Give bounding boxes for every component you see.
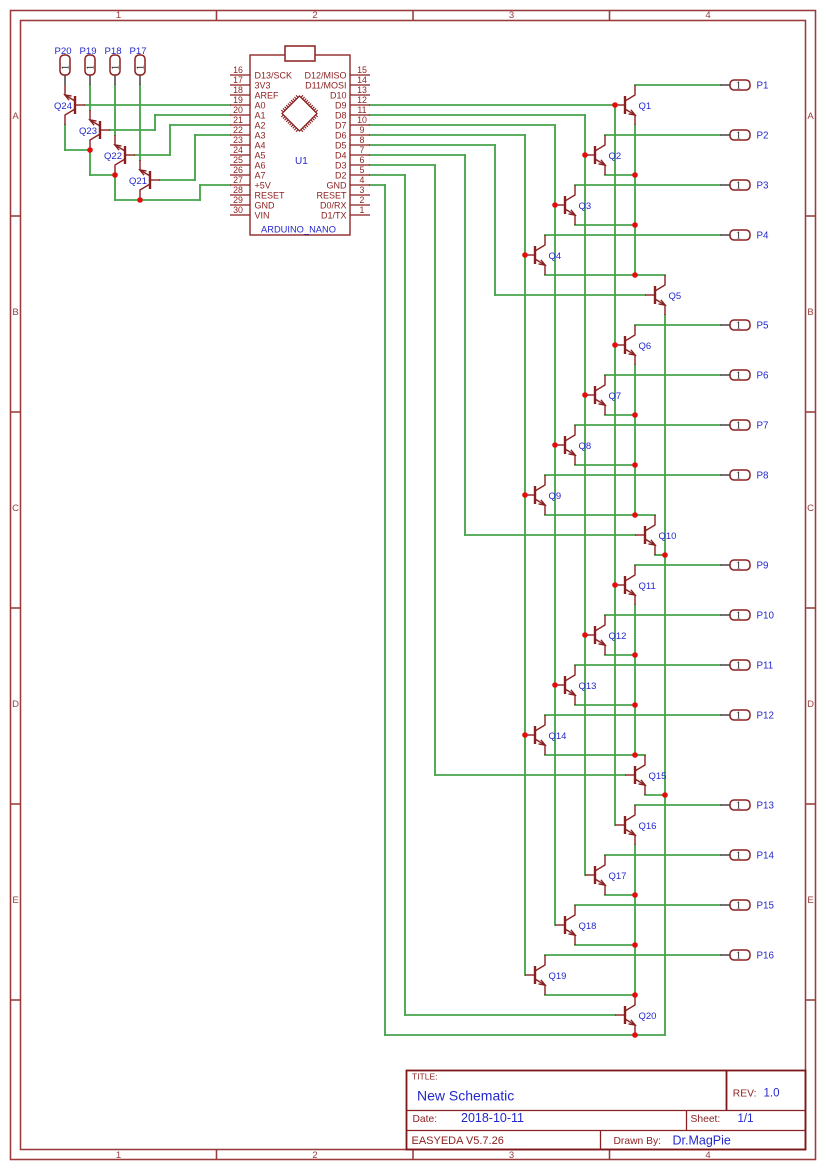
svg-text:Q16: Q16 — [639, 821, 657, 832]
wire net D5 to Q5 base — [370, 145, 645, 295]
svg-text:2: 2 — [312, 10, 317, 21]
svg-text:2018-10-11: 2018-10-11 — [461, 1111, 524, 1125]
wire to header P4 — [545, 234, 720, 236]
pin 3 RESET — [316, 185, 370, 200]
transistor Q24 — [54, 85, 85, 125]
svg-text:16: 16 — [233, 65, 243, 75]
transistor Q20 — [615, 995, 656, 1035]
pin 22 A3 — [230, 125, 266, 140]
svg-text:P6: P6 — [757, 371, 770, 382]
svg-text:1: 1 — [60, 65, 71, 70]
junction node (635,755) — [632, 752, 638, 758]
svg-text:P16: P16 — [757, 951, 775, 962]
wire to header P2 — [605, 134, 720, 136]
svg-text:Q21: Q21 — [129, 176, 147, 187]
op-amp U1 ARDUINO_NANO — [230, 46, 370, 235]
wire to header P7 — [575, 424, 720, 426]
svg-text:P18: P18 — [104, 46, 121, 57]
svg-text:1: 1 — [736, 711, 741, 722]
svg-text:4: 4 — [360, 175, 365, 185]
connector P4 — [720, 230, 769, 242]
svg-text:P2: P2 — [757, 131, 769, 142]
svg-text:3: 3 — [360, 185, 365, 195]
svg-text:A1: A1 — [255, 111, 266, 121]
svg-text:1: 1 — [736, 901, 741, 912]
wire emitter bus group 1 — [634, 125, 636, 275]
svg-text:24: 24 — [233, 145, 243, 155]
svg-text:D: D — [12, 699, 19, 710]
svg-text:4: 4 — [705, 10, 710, 21]
svg-text:P4: P4 — [757, 231, 770, 242]
connector P1 — [720, 80, 768, 92]
svg-text:C: C — [807, 503, 814, 514]
pin 1 D1/TX — [321, 205, 370, 220]
svg-text:11: 11 — [357, 105, 366, 115]
transistor Q16 — [615, 805, 656, 845]
connector P3 — [720, 180, 769, 192]
transistor Q14 — [525, 715, 566, 755]
svg-text:TITLE:: TITLE: — [412, 1072, 438, 1082]
junction node (635,895) — [632, 892, 638, 898]
svg-text:B: B — [807, 307, 813, 318]
pin 4 GND — [327, 175, 371, 190]
wire to header P6 — [605, 374, 720, 376]
svg-text:A0: A0 — [255, 101, 266, 111]
connector P5 — [720, 320, 769, 332]
svg-text:1: 1 — [736, 471, 741, 482]
svg-text:Drawn By:: Drawn By: — [614, 1136, 662, 1147]
svg-text:Dr.MagPie: Dr.MagPie — [673, 1133, 731, 1147]
junction node (140,200) — [137, 197, 143, 203]
connector P17 — [129, 46, 146, 85]
svg-text:P17: P17 — [129, 46, 146, 57]
svg-text:A: A — [807, 111, 814, 122]
svg-text:27: 27 — [233, 175, 243, 185]
transistor Q2 — [585, 135, 621, 175]
connector P9 — [720, 560, 768, 572]
svg-text:P1: P1 — [757, 81, 769, 92]
connector P13 — [720, 800, 774, 812]
wire net D6 column — [370, 135, 525, 975]
svg-text:Q22: Q22 — [104, 151, 122, 162]
svg-text:D11/MOSI: D11/MOSI — [305, 81, 346, 91]
pin 6 D3 — [335, 155, 370, 170]
junction node (525,735) — [522, 732, 528, 738]
svg-text:Q1: Q1 — [639, 101, 652, 112]
wire Q15 collector to bus — [635, 754, 645, 756]
svg-text:Q19: Q19 — [549, 971, 567, 982]
svg-text:13: 13 — [357, 85, 367, 95]
connector P10 — [720, 610, 774, 622]
svg-text:P20: P20 — [54, 46, 71, 57]
svg-text:D12/MISO: D12/MISO — [304, 71, 346, 81]
svg-text:P14: P14 — [757, 851, 775, 862]
svg-text:P12: P12 — [757, 711, 774, 722]
svg-text:P19: P19 — [79, 46, 96, 57]
junction node (635,465) — [632, 462, 638, 468]
svg-text:E: E — [807, 895, 813, 906]
connector P2 — [720, 130, 768, 142]
wire Q9 emitter to bus — [545, 514, 635, 516]
svg-text:VIN: VIN — [255, 211, 270, 221]
transistor Q18 — [555, 905, 596, 945]
wire net D9 column — [370, 105, 615, 825]
svg-text:D1/TX: D1/TX — [321, 211, 347, 221]
svg-text:RESET: RESET — [255, 191, 286, 201]
svg-text:1: 1 — [736, 131, 741, 142]
svg-text:A: A — [12, 111, 19, 122]
svg-text:D10: D10 — [330, 91, 347, 101]
transistor Q5 — [645, 275, 681, 315]
wire Q10 emitter to rail — [655, 554, 665, 556]
pin 8 D5 — [335, 135, 370, 150]
junction node (635,705) — [632, 702, 638, 708]
svg-text:A7: A7 — [255, 171, 266, 181]
wire Q3 emitter to bus — [575, 224, 635, 226]
junction node (525,255) — [522, 252, 528, 258]
transistor Q4 — [525, 235, 561, 275]
svg-text:AREF: AREF — [255, 91, 280, 101]
wire Q15 emitter to rail — [645, 794, 665, 796]
svg-text:20: 20 — [233, 105, 243, 115]
wire emitter bus group 2 — [634, 365, 636, 515]
svg-text:19: 19 — [233, 95, 243, 105]
junction node (615,345) — [612, 342, 618, 348]
wire to header P13 — [635, 804, 720, 806]
svg-text:D4: D4 — [335, 151, 347, 161]
svg-text:D3: D3 — [335, 161, 347, 171]
wire Q2 emitter to bus — [605, 174, 635, 176]
svg-text:P3: P3 — [757, 181, 770, 192]
wire net D3 to Q15 base — [370, 165, 625, 775]
transistor Q3 — [555, 185, 591, 225]
svg-text:17: 17 — [233, 75, 243, 85]
svg-text:U1: U1 — [295, 156, 308, 167]
svg-text:1: 1 — [135, 65, 146, 70]
junction node (635,175) — [632, 172, 638, 178]
svg-text:1: 1 — [736, 801, 741, 812]
svg-text:21: 21 — [233, 115, 243, 125]
svg-text:1: 1 — [736, 231, 741, 242]
pin 2 D0/RX — [320, 195, 370, 210]
wire net A0 to Q24 base — [85, 104, 230, 106]
junction node (635,275) — [632, 272, 638, 278]
connector P19 — [79, 46, 96, 85]
svg-text:Q24: Q24 — [54, 101, 72, 112]
svg-text:Q10: Q10 — [659, 531, 677, 542]
pin 30 VIN — [230, 205, 270, 220]
svg-text:18: 18 — [233, 85, 243, 95]
svg-text:Q9: Q9 — [549, 491, 562, 502]
pin 5 D2 — [335, 165, 370, 180]
svg-text:Q20: Q20 — [639, 1011, 657, 1022]
svg-text:Sheet:: Sheet: — [691, 1114, 721, 1125]
svg-text:+5V: +5V — [255, 181, 271, 191]
svg-text:5: 5 — [360, 165, 365, 175]
svg-text:Q23: Q23 — [79, 126, 97, 137]
connector P20 — [54, 46, 71, 85]
junction node (665,555) — [662, 552, 668, 558]
connector P18 — [104, 46, 121, 85]
junction node (635,1035) — [632, 1032, 638, 1038]
wire P17 to Q21 emitter — [139, 85, 141, 160]
svg-text:Q12: Q12 — [609, 631, 627, 642]
svg-text:28: 28 — [233, 185, 243, 195]
wire Q10 collector to bus — [635, 514, 655, 516]
junction node (635,225) — [632, 222, 638, 228]
svg-text:25: 25 — [233, 155, 243, 165]
wire to header P12 — [545, 714, 720, 716]
svg-text:1: 1 — [116, 10, 121, 21]
transistor Q9 — [525, 475, 561, 515]
svg-text:14: 14 — [357, 75, 367, 85]
svg-text:Q17: Q17 — [609, 871, 627, 882]
wire to header P16 — [545, 954, 720, 956]
svg-text:D8: D8 — [335, 111, 347, 121]
svg-text:23: 23 — [233, 135, 243, 145]
svg-text:Q11: Q11 — [639, 581, 656, 592]
junction node (635,655) — [632, 652, 638, 658]
transistor Q13 — [555, 665, 596, 705]
wire Q5 collector to bus — [635, 274, 665, 276]
connector P16 — [720, 950, 774, 962]
svg-text:6: 6 — [360, 155, 365, 165]
svg-text:D7: D7 — [335, 121, 347, 131]
transistor Q23 — [79, 110, 110, 150]
svg-text:Q3: Q3 — [579, 201, 592, 212]
svg-text:D5: D5 — [335, 141, 347, 151]
svg-text:Q18: Q18 — [579, 921, 597, 932]
svg-text:Q15: Q15 — [649, 771, 667, 782]
junction node (615,585) — [612, 582, 618, 588]
svg-text:1: 1 — [736, 661, 741, 672]
connector P14 — [720, 850, 774, 862]
chip icon — [282, 96, 317, 131]
pin 23 A4 — [230, 135, 266, 150]
junction node (525,495) — [522, 492, 528, 498]
wire to header P9 — [635, 564, 720, 566]
transistor Q15 — [625, 755, 666, 795]
wire net A2 to Q22 base — [135, 125, 230, 155]
wire net GND emitter rail — [370, 185, 665, 1035]
wire emitter bus group 3 — [634, 605, 636, 755]
pin 21 A2 — [230, 115, 266, 130]
title block — [407, 1071, 806, 1151]
svg-text:7: 7 — [360, 145, 365, 155]
connector P8 — [720, 470, 769, 482]
svg-text:A2: A2 — [255, 121, 266, 131]
wire to header P1 — [635, 84, 720, 86]
wire Q18 emitter to bus — [575, 944, 635, 946]
svg-text:1: 1 — [736, 181, 741, 192]
svg-text:29: 29 — [233, 195, 243, 205]
svg-text:P10: P10 — [757, 611, 775, 622]
transistor Q8 — [555, 425, 591, 465]
svg-text:1.0: 1.0 — [764, 1087, 780, 1099]
svg-text:New Schematic: New Schematic — [417, 1088, 514, 1104]
wire net +5V collector rail — [65, 125, 230, 200]
svg-text:15: 15 — [357, 65, 367, 75]
svg-text:Q4: Q4 — [549, 251, 562, 262]
svg-text:ARDUINO_NANO: ARDUINO_NANO — [261, 224, 336, 234]
junction node (555,445) — [552, 442, 558, 448]
wire net D2 to Q20 base — [370, 175, 615, 1015]
pin 14 D11/MOSI — [305, 75, 370, 90]
svg-text:1: 1 — [736, 421, 741, 432]
wire Q17 emitter to bus — [605, 894, 635, 896]
wire to header P5 — [635, 324, 720, 326]
junction node (555,685) — [552, 682, 558, 688]
svg-text:D0/RX: D0/RX — [320, 201, 347, 211]
transistor Q12 — [585, 615, 626, 655]
svg-text:2: 2 — [312, 1150, 317, 1161]
svg-text:REV:: REV: — [733, 1088, 757, 1099]
pin 29 GND — [230, 195, 275, 210]
wire to header P15 — [575, 904, 720, 906]
pin 13 D10 — [330, 85, 370, 100]
pin 15 D12/MISO — [304, 65, 370, 80]
svg-text:A4: A4 — [255, 141, 266, 151]
pin 24 A5 — [230, 145, 266, 160]
wire to header P3 — [575, 184, 720, 186]
connector P11 — [720, 660, 773, 672]
svg-text:Q6: Q6 — [639, 341, 652, 352]
pin 17 3V3 — [230, 75, 271, 90]
wire to header P8 — [545, 474, 720, 476]
junction node (635,945) — [632, 942, 638, 948]
svg-text:P9: P9 — [757, 561, 769, 572]
junction node (585,635) — [582, 632, 588, 638]
pin 11 D8 — [335, 105, 370, 120]
transistor Q6 — [615, 325, 651, 365]
svg-text:1: 1 — [736, 561, 741, 572]
pin 16 D13/SCK — [230, 65, 292, 80]
pin 27 +5V — [230, 175, 271, 190]
svg-text:C: C — [12, 503, 19, 514]
junction node (585,395) — [582, 392, 588, 398]
svg-text:10: 10 — [357, 115, 367, 125]
wire emitter bus group 4 — [634, 845, 636, 995]
svg-text:1: 1 — [736, 81, 741, 92]
connector P12 — [720, 710, 774, 722]
svg-text:9: 9 — [360, 125, 365, 135]
svg-text:1: 1 — [736, 851, 741, 862]
transistor Q22 — [104, 135, 135, 175]
svg-text:GND: GND — [255, 201, 276, 211]
svg-text:Q13: Q13 — [579, 681, 597, 692]
wire Q12 emitter to bus — [605, 654, 635, 656]
transistor Q1 — [615, 85, 651, 125]
svg-text:B: B — [12, 307, 18, 318]
wire Q7 emitter to bus — [605, 414, 635, 416]
svg-text:D2: D2 — [335, 171, 347, 181]
svg-text:D9: D9 — [335, 101, 347, 111]
wire Q19 emitter to bus — [545, 994, 635, 996]
svg-text:1: 1 — [736, 611, 741, 622]
svg-text:8: 8 — [360, 135, 365, 145]
svg-text:1: 1 — [736, 371, 741, 382]
wire net D7 column — [370, 125, 555, 925]
svg-text:P7: P7 — [757, 421, 769, 432]
junction node (90,150) — [87, 147, 93, 153]
svg-text:E: E — [12, 895, 18, 906]
junction node (585,155) — [582, 152, 588, 158]
svg-text:Q14: Q14 — [549, 731, 567, 742]
svg-text:D6: D6 — [335, 131, 347, 141]
svg-text:Q5: Q5 — [669, 291, 682, 302]
pin 28 RESET — [230, 185, 285, 200]
wire P19 to Q23 emitter — [89, 85, 91, 110]
wire to header P10 — [605, 614, 720, 616]
svg-text:Q7: Q7 — [609, 391, 622, 402]
svg-text:1: 1 — [116, 1150, 121, 1161]
svg-text:EASYEDA V5.7.26: EASYEDA V5.7.26 — [412, 1135, 504, 1147]
junction node (665,795) — [662, 792, 668, 798]
svg-text:22: 22 — [233, 125, 243, 135]
transistor Q19 — [525, 955, 566, 995]
svg-text:30: 30 — [233, 205, 243, 215]
transistor Q17 — [585, 855, 626, 895]
junction node (555,205) — [552, 202, 558, 208]
transistor Q7 — [585, 375, 621, 415]
svg-text:P8: P8 — [757, 471, 770, 482]
transistor Q11 — [615, 565, 656, 605]
svg-text:3: 3 — [509, 10, 514, 21]
wire net A3 to Q21 base — [160, 135, 230, 180]
svg-text:GND: GND — [327, 181, 348, 191]
svg-text:D: D — [807, 699, 814, 710]
svg-text:12: 12 — [357, 95, 367, 105]
wire Q14 emitter to bus — [545, 754, 635, 756]
svg-text:1: 1 — [85, 65, 96, 70]
connector P7 — [720, 420, 768, 432]
pin 9 D6 — [335, 125, 370, 140]
connector P6 — [720, 370, 769, 382]
svg-text:Q2: Q2 — [609, 151, 622, 162]
wire to header P11 — [575, 664, 720, 666]
svg-text:1: 1 — [110, 65, 121, 70]
svg-text:A3: A3 — [255, 131, 266, 141]
wire Q4 emitter to bus — [545, 274, 635, 276]
svg-text:P11: P11 — [757, 661, 774, 672]
wire net A1 to Q23 base — [110, 115, 230, 130]
svg-text:RESET: RESET — [316, 191, 347, 201]
wire Q8 emitter to bus — [575, 464, 635, 466]
pin 26 A7 — [230, 165, 266, 180]
svg-text:P5: P5 — [757, 321, 770, 332]
junction node (635,995) — [632, 992, 638, 998]
svg-text:A6: A6 — [255, 161, 266, 171]
pin 20 A1 — [230, 105, 266, 120]
svg-text:Date:: Date: — [413, 1114, 438, 1125]
wire net D4 to Q10 base — [370, 155, 635, 535]
wire P18 to Q22 emitter — [114, 85, 116, 135]
pin 10 D7 — [335, 115, 370, 130]
usb connector rect — [285, 46, 315, 61]
svg-text:1: 1 — [736, 951, 741, 962]
pin 7 D4 — [335, 145, 370, 160]
wire to header P14 — [605, 854, 720, 856]
transistor Q21 — [129, 160, 160, 200]
svg-text:2: 2 — [360, 195, 365, 205]
svg-text:P15: P15 — [757, 901, 775, 912]
junction node (635,415) — [632, 412, 638, 418]
wire net D8 column — [370, 115, 585, 875]
transistor Q10 — [635, 515, 676, 555]
svg-text:1/1: 1/1 — [738, 1113, 754, 1125]
pin 18 AREF — [230, 85, 279, 100]
wire Q13 emitter to bus — [575, 704, 635, 706]
